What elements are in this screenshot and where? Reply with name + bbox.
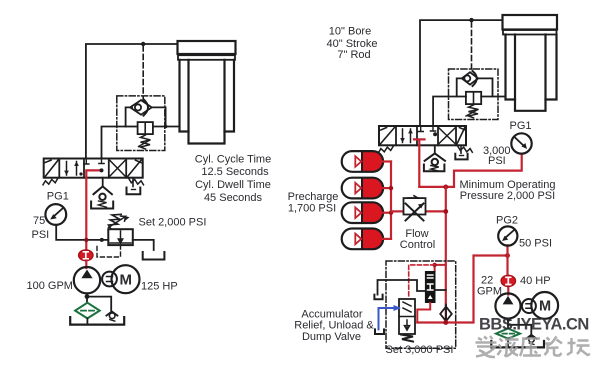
pump P1 circle — [74, 267, 100, 293]
wire T-port down — [102, 178, 104, 186]
tank bracket RV2 — [143, 252, 165, 260]
motor M1 circle — [112, 265, 140, 293]
svg-text:PSI: PSI — [32, 229, 50, 241]
svg-text:M: M — [119, 272, 132, 289]
filter F2 diamond — [496, 329, 520, 339]
gauge PG2 needle — [505, 231, 514, 239]
svg-text:Flow: Flow — [405, 228, 428, 240]
gauge PG1 needle — [53, 209, 63, 218]
check valve CV1 ball — [135, 104, 141, 110]
check valve CV4 seat arc — [473, 71, 477, 86]
pump P1 triangle — [81, 270, 92, 279]
svg-text:1,700 PSI: 1,700 PSI — [288, 202, 336, 214]
coupling circle — [102, 272, 117, 287]
tank bracket under CV5 — [424, 165, 445, 172]
wire cap line valve to cylinder — [420, 20, 503, 125]
wire filter2 to tank — [507, 339, 509, 346]
wire red flow control line — [391, 210, 446, 212]
check valve CV5 vee — [425, 153, 445, 160]
check valve CV1 seat arc — [144, 99, 149, 115]
wire A-line valve to cylinder cap — [86, 44, 178, 159]
counterbalance enclosure box (dash-dot) — [117, 96, 165, 151]
relief cartridge spring — [401, 335, 413, 342]
wire bypass branch — [87, 297, 111, 312]
wire check branch left riser — [126, 107, 132, 126]
gauge PG1r needle — [515, 138, 525, 147]
directional valve DV2 right spring — [458, 146, 473, 152]
wire DV2 drain down — [460, 145, 462, 153]
relief valve RV2 spring — [108, 214, 121, 229]
node suction tee — [85, 294, 90, 299]
directional valve DV1 right spring — [129, 178, 144, 185]
cylinder CYL1 cap — [178, 41, 236, 54]
svg-text:GPM: GPM — [477, 285, 502, 297]
wire RV1 outlet to cylinder rod port — [153, 126, 180, 128]
bypass check CV6 ball — [529, 337, 534, 342]
counterbalance relief RV1 internal arrow — [144, 124, 146, 133]
svg-text:Cyl. Dwell Time: Cyl. Dwell Time — [195, 179, 271, 191]
coupling circle 2 — [522, 299, 536, 313]
check valve CV5 spring — [431, 166, 439, 172]
bypass check CV3 ball — [109, 313, 115, 319]
watermark char 爱 — [476, 336, 497, 357]
counterbalance relief RV3 body — [466, 92, 481, 104]
directional valve DV1 right solenoid — [128, 160, 142, 176]
wire RV2 outlet to tank — [133, 240, 154, 250]
svg-text:PG2: PG2 — [496, 215, 518, 227]
flow control FC variable restrictor X — [406, 204, 424, 221]
filter F1 inner dashes — [81, 310, 94, 312]
cylinder CYL1 gland band — [178, 55, 235, 60]
directional valve DV2 right solenoid — [457, 128, 465, 144]
wire red cartridge outlet — [417, 303, 430, 323]
svg-text:45 Seconds: 45 Seconds — [204, 192, 263, 204]
motor M2 circle — [531, 292, 558, 319]
node red tee accumulator branch — [443, 185, 448, 190]
relief valve RV2 setting arrow — [109, 216, 126, 227]
wire dashed pilot line down to counterbalance — [142, 46, 144, 100]
wire check branch 2 right riser — [478, 78, 492, 96]
svg-text:PG1: PG1 — [47, 191, 69, 203]
wire dashed pilot to counterbalance 2 — [471, 22, 473, 72]
node bus tee 2 — [389, 186, 393, 190]
node DV2 internal port — [433, 132, 437, 136]
svg-text:125 HP: 125 HP — [141, 281, 178, 293]
tank bracket right of CV2 — [127, 188, 141, 195]
accumulator ACC1 — [342, 151, 391, 172]
accumulator ACC2 — [342, 178, 391, 199]
svg-text:Set 2,000 PSI: Set 2,000 PSI — [139, 217, 207, 229]
watermark char 压 — [520, 339, 541, 357]
check valve CV2 ball — [99, 194, 105, 200]
node valve internal port — [100, 168, 104, 172]
wire red pump riser — [506, 256, 509, 295]
counterbalance relief RV1 setting arrow — [139, 140, 151, 147]
svg-text:75: 75 — [33, 215, 45, 227]
wire B-line valve to counterbalance — [102, 127, 126, 159]
directional valve DV1 center box port stubs — [84, 160, 104, 165]
check valve CV5 ball — [432, 159, 438, 165]
cylinder CYL1 rod — [189, 60, 225, 144]
gauge PG1 circle — [45, 204, 66, 225]
wire red main to PG1 gauge — [419, 154, 521, 187]
counterbalance enclosure box 2 (dash-dot) — [449, 69, 499, 120]
filter F2 inner dashes — [503, 333, 515, 335]
counterbalance relief RV1 spring — [141, 135, 151, 149]
directional valve DV2 center box port stubs — [418, 127, 436, 132]
directional valve DV2 section dividers — [396, 126, 456, 145]
svg-text:40 HP: 40 HP — [520, 275, 551, 287]
watermark char 液 — [498, 337, 519, 357]
check valve CV4 ball — [464, 75, 470, 81]
wire red main vertical — [445, 187, 447, 323]
unload cartridge valve body — [425, 271, 436, 303]
counterbalance relief RV3 internal arrow — [473, 93, 475, 103]
wire red PG2 stub — [506, 245, 508, 255]
node bus tee 3 — [389, 211, 393, 215]
svg-text:Pressure 2,000 PSI: Pressure 2,000 PSI — [460, 190, 555, 202]
gauge PG1 wire — [56, 225, 108, 240]
directional valve DV1 parallel arrows box — [67, 162, 77, 176]
wire bypass branch 2 — [508, 325, 531, 335]
wire pump suction — [86, 293, 88, 303]
flow meter FM1 white glyph — [84, 252, 89, 259]
wire check branch 2 left riser — [457, 78, 462, 96]
flow meter FM2 white glyph — [506, 277, 511, 284]
check valve CV1 diamond — [130, 100, 152, 115]
node red line tee to gauge wire — [84, 238, 88, 242]
tank bracket main left — [70, 317, 124, 325]
flow control FC arrow on top — [408, 196, 418, 198]
wire red branch to unload cartridge — [435, 265, 446, 271]
node red tee unload — [432, 263, 436, 267]
filter F1 diamond — [75, 303, 100, 319]
node tee on gauge wire — [100, 238, 104, 242]
flow control FC body — [404, 198, 426, 214]
counterbalance relief RV3 setting arrow — [466, 110, 478, 117]
flow meter FM1 red body — [79, 250, 93, 261]
wire pump2 suction — [507, 319, 509, 329]
wire red pump pressure line into valve — [86, 170, 101, 250]
node red pump tee — [505, 253, 510, 258]
svg-text:100 GPM: 100 GPM — [27, 280, 73, 292]
node pilot tee on A-line — [141, 42, 145, 46]
cylinder CYL2 barrel — [506, 35, 557, 100]
directional valve DV2 left solenoid — [381, 128, 395, 144]
relief cartridge body — [399, 299, 415, 334]
tank bracket main right — [491, 341, 544, 347]
node red bottom tee — [443, 320, 448, 325]
tank bracket right of CV5 — [455, 154, 467, 160]
pump P2 circle — [495, 293, 520, 318]
check valve CV4 diamond — [462, 72, 478, 84]
wire filter to tank — [86, 318, 88, 323]
cylinder CYL1 barrel — [180, 60, 235, 132]
accumulator ACC3 — [342, 202, 391, 223]
tank bracket unload vent — [374, 295, 382, 300]
diamond check on red main — [440, 305, 452, 324]
svg-text:M: M — [539, 299, 551, 315]
svg-text:Cyl. Cycle Time: Cyl. Cycle Time — [195, 153, 271, 165]
tank bracket under CV2 — [91, 202, 113, 209]
wire RV1 inlet — [126, 126, 138, 128]
directional valve DV1 left solenoid — [45, 160, 58, 176]
pump P2 triangle — [503, 296, 514, 305]
svg-text:Accumulator: Accumulator — [301, 308, 362, 320]
cylinder CYL2 rod — [515, 35, 546, 111]
node counterbalance outlet — [164, 125, 168, 129]
gauge PG1r circle — [511, 133, 531, 153]
wire RV3 outlet to cylinder rod port — [481, 96, 505, 98]
node pilot tee on cap line — [469, 18, 473, 22]
svg-text:PG1: PG1 — [510, 120, 532, 132]
wire red meter to pump — [85, 261, 87, 269]
wire red dashed pilot in box — [409, 265, 435, 298]
wire red bottom run — [417, 256, 507, 323]
svg-text:Dump Valve: Dump Valve — [302, 331, 361, 343]
watermark char 论 — [545, 337, 563, 356]
counterbalance relief RV3 spring — [469, 105, 479, 118]
svg-text:BBS.IYEYA.CN: BBS.IYEYA.CN — [479, 316, 589, 334]
node valve internal port 2 — [79, 172, 82, 175]
blue pilot arrow — [394, 305, 402, 311]
relief valve RV2 internal arrow — [118, 231, 122, 243]
bypass check CV6 vee — [526, 335, 537, 339]
wire unload valve to red main — [436, 289, 446, 291]
directional valve DV1 body — [44, 159, 143, 178]
wire drain port down — [132, 178, 134, 187]
bypass check CV3 vee — [106, 312, 117, 316]
wire unload valve vent to tank — [378, 280, 425, 295]
directional valve DV1 crossed arrows box — [110, 161, 125, 177]
wire red accumulator bus — [390, 162, 392, 239]
svg-text:50 PSI: 50 PSI — [519, 238, 552, 250]
svg-text:7" Rod: 7" Rod — [337, 49, 370, 61]
svg-text:PSI: PSI — [488, 155, 506, 167]
wire check branch right riser — [152, 107, 166, 126]
directional valve DV2 parallel arrows box — [403, 129, 411, 143]
relief valve RV2 pilot dashes — [97, 245, 121, 257]
svg-text:Relief, Unload &: Relief, Unload & — [294, 320, 374, 332]
counterbalance relief RV1 body — [138, 122, 153, 134]
accumulator ACC4 — [342, 229, 391, 250]
check valve CV2 vee — [94, 186, 112, 194]
wire DV2 T-port down — [434, 145, 436, 153]
pump2 suction triangle — [506, 319, 511, 323]
flow meter FM2 red body — [501, 275, 515, 286]
watermark char 坛 — [567, 338, 590, 355]
directional valve DV2 left spring — [379, 146, 394, 152]
blue pilot wire — [379, 308, 400, 329]
check valve CV2 spring — [99, 201, 107, 207]
wire red P into DV2 — [414, 139, 425, 187]
unload enclosure box (dash-dot) — [386, 261, 456, 348]
svg-text:12.5 Seconds: 12.5 Seconds — [201, 166, 269, 178]
svg-text:Precharge: Precharge — [288, 191, 339, 203]
svg-text:Control: Control — [400, 239, 435, 251]
directional valve DV1 left spring — [43, 178, 58, 185]
relief valve RV2 body — [108, 229, 133, 245]
cylinder CYL2 gland band — [503, 30, 557, 35]
node flow line tee on main — [443, 209, 448, 214]
directional valve DV1 section dividers — [59, 159, 126, 178]
directional valve DV2 body — [379, 126, 466, 145]
svg-text:10" Bore: 10" Bore — [329, 26, 371, 38]
cylinder CYL2 cap — [503, 15, 558, 30]
directional valve DV2 crossed arrows box — [439, 128, 455, 144]
tank bracket blue — [375, 329, 384, 334]
gauge PG2 circle — [498, 226, 517, 245]
svg-text:Set 3,000 PSI: Set 3,000 PSI — [386, 344, 454, 356]
wire RV3 inlet from valve — [433, 97, 466, 127]
